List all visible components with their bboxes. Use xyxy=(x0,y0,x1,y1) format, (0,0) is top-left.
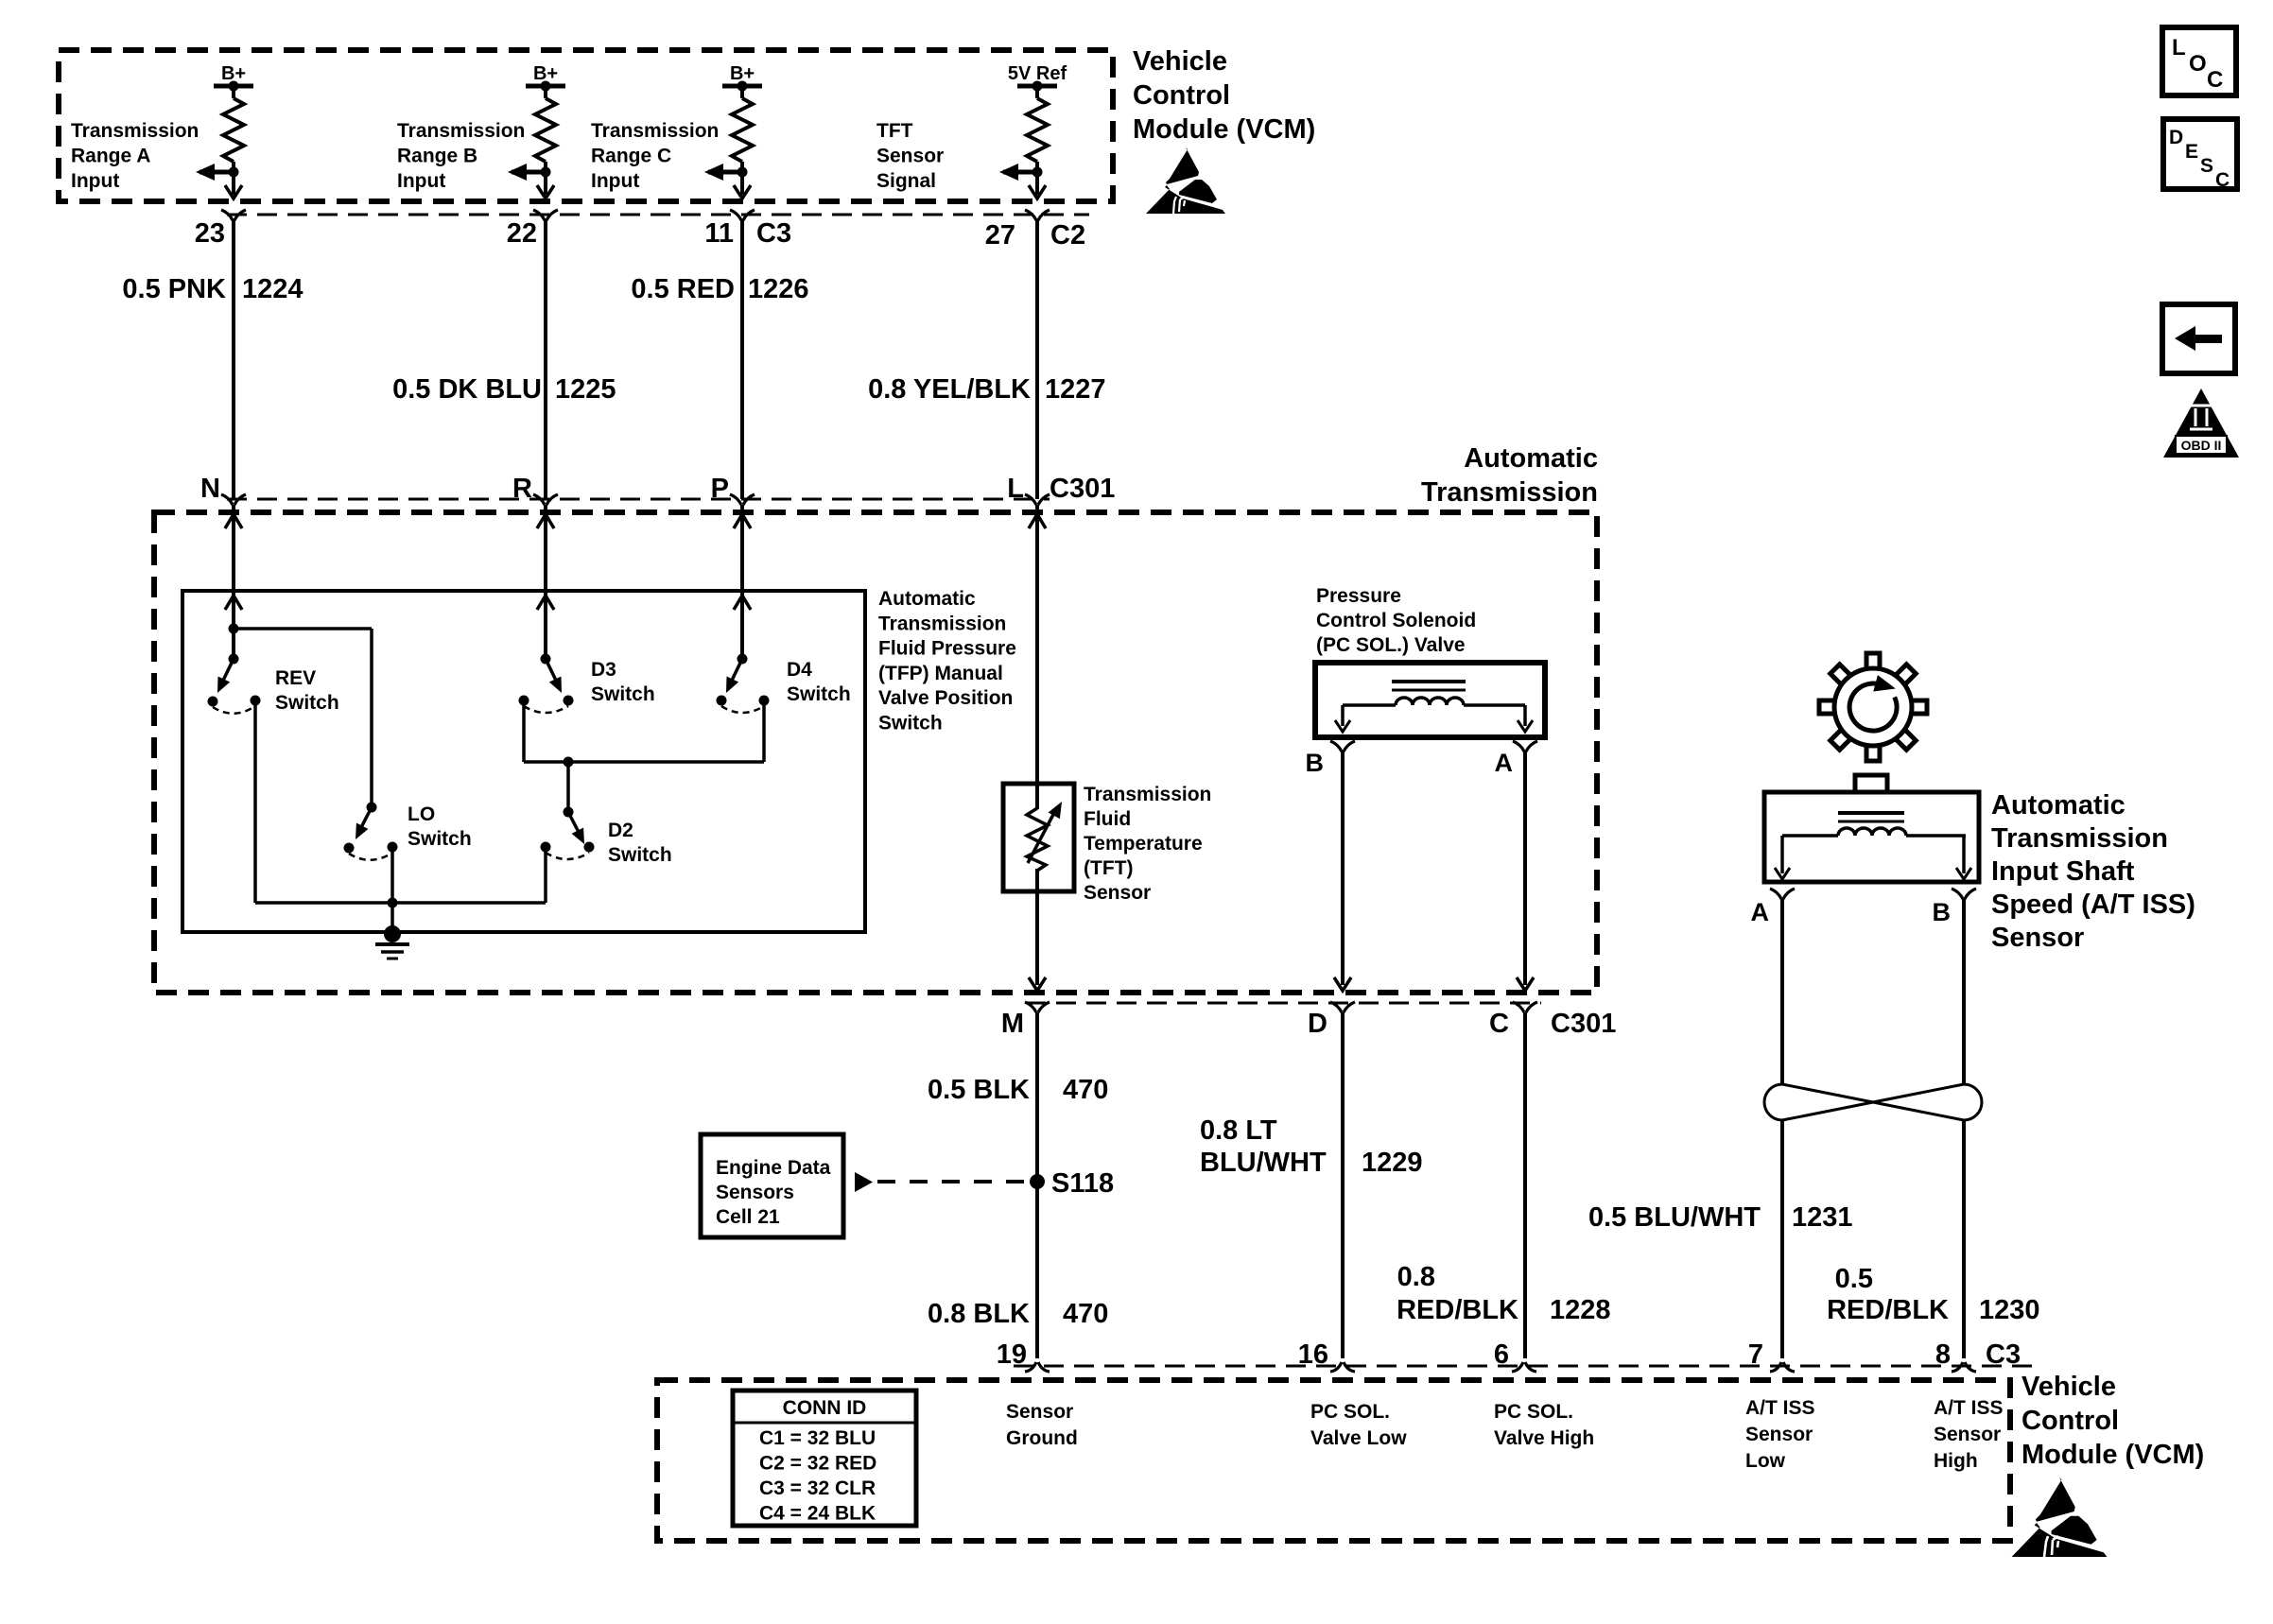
svg-text:Switch: Switch xyxy=(878,713,943,734)
svg-text:Switch: Switch xyxy=(787,683,851,705)
svg-text:7: 7 xyxy=(1748,1339,1763,1370)
svg-text:0.5 BLK: 0.5 BLK xyxy=(928,1075,1030,1105)
svg-text:1230: 1230 xyxy=(1979,1295,2040,1325)
svg-text:A/T ISS: A/T ISS xyxy=(1934,1397,2004,1419)
svg-text:Valve Position: Valve Position xyxy=(878,687,1013,709)
svg-text:Automatic: Automatic xyxy=(878,588,976,610)
svg-text:16: 16 xyxy=(1298,1339,1328,1370)
svg-text:Pressure: Pressure xyxy=(1316,585,1401,607)
svg-text:RED/BLK: RED/BLK xyxy=(1397,1295,1518,1325)
svg-text:1231: 1231 xyxy=(1792,1202,1853,1233)
svg-text:O: O xyxy=(2189,51,2207,77)
svg-text:Speed (A/T ISS): Speed (A/T ISS) xyxy=(1991,890,2195,920)
svg-text:CONN ID: CONN ID xyxy=(783,1397,867,1419)
svg-text:S: S xyxy=(2200,155,2213,177)
svg-text:C301: C301 xyxy=(1551,1009,1616,1039)
svg-text:Control Solenoid: Control Solenoid xyxy=(1316,610,1476,631)
svg-text:LO: LO xyxy=(408,803,435,825)
svg-text:1224: 1224 xyxy=(242,274,304,304)
svg-text:Module (VCM): Module (VCM) xyxy=(1133,114,1315,145)
svg-text:TFT: TFT xyxy=(876,120,913,142)
svg-text:Sensor: Sensor xyxy=(1991,923,2084,953)
svg-text:Valve High: Valve High xyxy=(1494,1427,1594,1449)
svg-text:Valve Low: Valve Low xyxy=(1310,1427,1407,1449)
svg-text:Switch: Switch xyxy=(408,828,472,850)
svg-text:PC SOL.: PC SOL. xyxy=(1494,1401,1573,1423)
svg-text:0.8 YEL/BLK: 0.8 YEL/BLK xyxy=(868,374,1031,405)
svg-text:B: B xyxy=(1306,749,1325,777)
svg-text:E: E xyxy=(2185,141,2198,163)
svg-text:Input: Input xyxy=(71,170,119,192)
svg-text:1229: 1229 xyxy=(1362,1148,1423,1178)
svg-text:Vehicle: Vehicle xyxy=(2021,1372,2116,1402)
svg-text:(TFT): (TFT) xyxy=(1084,857,1133,879)
svg-text:0.5: 0.5 xyxy=(1835,1264,1873,1294)
svg-text:Switch: Switch xyxy=(591,683,655,705)
svg-text:27: 27 xyxy=(985,220,1015,251)
svg-text:470: 470 xyxy=(1063,1075,1108,1105)
svg-text:Automatic: Automatic xyxy=(1464,443,1598,474)
svg-text:0.5 DK BLU: 0.5 DK BLU xyxy=(392,374,542,405)
svg-text:11: 11 xyxy=(704,218,734,249)
svg-text:PC SOL.: PC SOL. xyxy=(1310,1401,1390,1423)
svg-text:C4 = 24 BLK: C4 = 24 BLK xyxy=(759,1503,876,1525)
svg-text:D4: D4 xyxy=(787,659,812,681)
svg-text:Ground: Ground xyxy=(1006,1427,1078,1449)
svg-text:Control: Control xyxy=(1133,80,1230,111)
svg-text:D3: D3 xyxy=(591,659,616,681)
svg-text:470: 470 xyxy=(1063,1299,1108,1329)
svg-text:RED/BLK: RED/BLK xyxy=(1827,1295,1949,1325)
svg-text:Engine Data: Engine Data xyxy=(716,1157,831,1179)
svg-text:Automatic: Automatic xyxy=(1991,790,2126,821)
svg-text:C1 = 32 BLU: C1 = 32 BLU xyxy=(759,1427,876,1449)
svg-text:19: 19 xyxy=(997,1339,1027,1370)
svg-text:C2 = 32 RED: C2 = 32 RED xyxy=(759,1453,876,1475)
svg-text:C3: C3 xyxy=(1986,1339,2021,1370)
svg-text:(PC SOL.) Valve: (PC SOL.) Valve xyxy=(1316,634,1466,656)
svg-text:Low: Low xyxy=(1745,1450,1786,1472)
svg-text:Transmission: Transmission xyxy=(1084,784,1211,805)
svg-text:1227: 1227 xyxy=(1045,374,1106,405)
svg-text:Sensor: Sensor xyxy=(1934,1424,2001,1445)
svg-text:Range A: Range A xyxy=(71,146,150,167)
svg-text:Vehicle: Vehicle xyxy=(1133,46,1227,77)
svg-text:High: High xyxy=(1934,1450,1978,1472)
svg-text:C3 = 32 CLR: C3 = 32 CLR xyxy=(759,1477,876,1499)
svg-text:C: C xyxy=(1489,1009,1509,1039)
svg-text:Transmission: Transmission xyxy=(1991,823,2168,854)
svg-text:Switch: Switch xyxy=(608,844,672,866)
svg-text:Sensor: Sensor xyxy=(1006,1401,1073,1423)
svg-text:N: N xyxy=(200,474,220,504)
svg-text:Module (VCM): Module (VCM) xyxy=(2021,1440,2204,1470)
svg-text:6: 6 xyxy=(1494,1339,1509,1370)
svg-text:A/T ISS: A/T ISS xyxy=(1745,1397,1815,1419)
svg-text:BLU/WHT: BLU/WHT xyxy=(1200,1148,1327,1178)
svg-text:Fluid: Fluid xyxy=(1084,808,1131,830)
svg-text:C: C xyxy=(2207,67,2223,93)
svg-text:0.5 BLU/WHT: 0.5 BLU/WHT xyxy=(1588,1202,1761,1233)
svg-text:1225: 1225 xyxy=(555,374,616,405)
svg-text:(TFP) Manual: (TFP) Manual xyxy=(878,663,1003,684)
svg-text:22: 22 xyxy=(507,218,537,249)
svg-text:D: D xyxy=(2169,127,2183,148)
svg-text:M: M xyxy=(1001,1009,1024,1039)
svg-text:0.8 BLK: 0.8 BLK xyxy=(928,1299,1030,1329)
svg-text:Transmission: Transmission xyxy=(1421,477,1598,508)
svg-text:Switch: Switch xyxy=(275,692,339,714)
svg-text:R: R xyxy=(512,474,532,504)
svg-text:0.5 RED: 0.5 RED xyxy=(631,274,735,304)
svg-text:0.8: 0.8 xyxy=(1397,1262,1435,1292)
svg-text:A: A xyxy=(1751,898,1770,926)
svg-text:Transmission: Transmission xyxy=(591,120,719,142)
svg-text:A: A xyxy=(1495,749,1514,777)
svg-text:8: 8 xyxy=(1935,1339,1951,1370)
svg-text:Sensor: Sensor xyxy=(1745,1424,1813,1445)
svg-text:1226: 1226 xyxy=(748,274,809,304)
svg-text:Fluid Pressure: Fluid Pressure xyxy=(878,638,1016,660)
svg-text:0.8 LT: 0.8 LT xyxy=(1200,1115,1277,1146)
svg-text:Input Shaft: Input Shaft xyxy=(1991,856,2135,887)
svg-text:Input: Input xyxy=(397,170,445,192)
svg-text:C: C xyxy=(2215,169,2230,191)
svg-text:L: L xyxy=(1007,474,1024,504)
svg-text:Sensor: Sensor xyxy=(876,146,944,167)
svg-text:Transmission: Transmission xyxy=(397,120,525,142)
svg-text:C2: C2 xyxy=(1050,220,1085,251)
svg-text:23: 23 xyxy=(195,218,225,249)
svg-text:OBD II: OBD II xyxy=(2181,438,2222,453)
svg-text:P: P xyxy=(711,474,729,504)
svg-text:D2: D2 xyxy=(608,820,633,841)
svg-text:REV: REV xyxy=(275,667,316,689)
svg-text:B: B xyxy=(1933,898,1952,926)
svg-text:Temperature: Temperature xyxy=(1084,833,1203,855)
svg-text:0.5 PNK: 0.5 PNK xyxy=(122,274,226,304)
svg-text:Sensor: Sensor xyxy=(1084,882,1151,904)
svg-text:L: L xyxy=(2172,35,2186,60)
svg-text:Signal: Signal xyxy=(876,170,936,192)
svg-text:Range C: Range C xyxy=(591,146,671,167)
svg-text:Sensors: Sensors xyxy=(716,1182,794,1203)
svg-text:Range B: Range B xyxy=(397,146,477,167)
svg-text:Input: Input xyxy=(591,170,639,192)
svg-text:C3: C3 xyxy=(756,218,791,249)
svg-text:Control: Control xyxy=(2021,1406,2119,1436)
svg-text:C301: C301 xyxy=(1050,474,1115,504)
svg-text:Transmission: Transmission xyxy=(878,613,1006,634)
svg-text:1228: 1228 xyxy=(1550,1295,1611,1325)
svg-text:D: D xyxy=(1308,1009,1327,1039)
svg-text:S118: S118 xyxy=(1051,1168,1114,1199)
svg-text:Cell 21: Cell 21 xyxy=(716,1206,780,1228)
svg-text:Transmission: Transmission xyxy=(71,120,199,142)
